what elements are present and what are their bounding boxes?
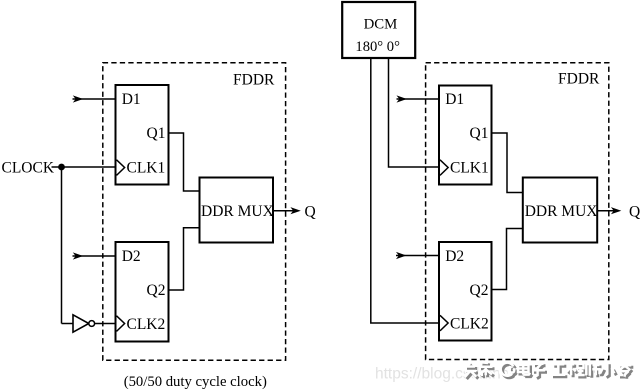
- svg-text:CLK2: CLK2: [450, 316, 489, 333]
- svg-text:Q1: Q1: [147, 125, 166, 142]
- clock triangle CLK2 (left): [117, 316, 125, 332]
- inverter U1 triangle: [73, 315, 89, 332]
- wire Q output with arrowhead (right): [597, 210, 614, 212]
- wire junction down to inverter: [61, 167, 63, 324]
- svg-text:Q: Q: [629, 204, 640, 221]
- svg-text:FDDR: FDDR: [233, 72, 275, 89]
- wire D1 input with arrowhead (left): [73, 98, 116, 100]
- svg-text:Q: Q: [305, 204, 316, 221]
- svg-text:DCM: DCM: [364, 17, 398, 33]
- inverter bubble: [89, 321, 95, 327]
- wire D2 input with arrowhead (right): [396, 255, 439, 257]
- wire CLOCK to CLK1: [52, 166, 116, 168]
- svg-text:DDR MUX: DDR MUX: [525, 203, 598, 220]
- svg-text:CLOCK: CLOCK: [2, 160, 55, 177]
- wire D1 input with arrowhead (right): [397, 98, 440, 100]
- svg-text:D2: D2: [122, 248, 141, 265]
- svg-text:(50/50 duty cycle clock): (50/50 duty cycle clock): [124, 374, 267, 390]
- svg-text:DDR MUX: DDR MUX: [201, 203, 274, 220]
- clock triangle CLK2 (right): [440, 315, 448, 331]
- wire Q2 to DDR MUX (left): [169, 228, 200, 290]
- svg-text:FDDR: FDDR: [558, 71, 600, 88]
- svg-text:CLK1: CLK1: [450, 160, 489, 177]
- clock triangle CLK1 (right): [440, 160, 448, 176]
- wire Q1 to DDR MUX (left): [169, 133, 200, 191]
- svg-text:D1: D1: [122, 91, 141, 108]
- DDR MUX box (left): [200, 178, 274, 243]
- wire Q1 to DDR MUX (right): [492, 133, 523, 193]
- wire DCM 0 output down to CLK1 (right): [389, 58, 440, 167]
- wire DCM 180 output down to CLK2 (right): [371, 58, 439, 323]
- clock triangle CLK1 (left): [117, 160, 125, 176]
- svg-text:CLK2: CLK2: [127, 316, 166, 333]
- flip-flop FF4 (right bottom): [439, 242, 492, 341]
- DDR MUX box (right): [523, 178, 597, 243]
- svg-text:Q2: Q2: [147, 282, 166, 299]
- DCM box: [342, 2, 415, 58]
- svg-text:CLK1: CLK1: [127, 160, 166, 177]
- flip-flop FF2 (left): [116, 242, 169, 342]
- wire Q2 to DDR MUX (right): [492, 229, 523, 290]
- wire to inverter input: [62, 323, 74, 325]
- wire bubble to CLK2: [95, 323, 116, 325]
- FDDR dashed box (left): [103, 63, 286, 361]
- flip-flop FF1 (left): [116, 85, 169, 185]
- svg-text:180° 0°: 180° 0°: [355, 39, 400, 55]
- svg-text:D2: D2: [445, 248, 464, 265]
- wire Q output with arrowhead (left): [273, 210, 294, 212]
- svg-text:D1: D1: [445, 91, 464, 108]
- junction node on clock wire: [58, 164, 65, 171]
- flip-flop FF3 (right top): [439, 86, 492, 185]
- FDDR dashed box (right): [426, 63, 609, 360]
- wire D2 input with arrowhead (left): [73, 255, 116, 257]
- svg-text:Q2: Q2: [470, 282, 489, 299]
- svg-text:Q1: Q1: [470, 125, 489, 142]
